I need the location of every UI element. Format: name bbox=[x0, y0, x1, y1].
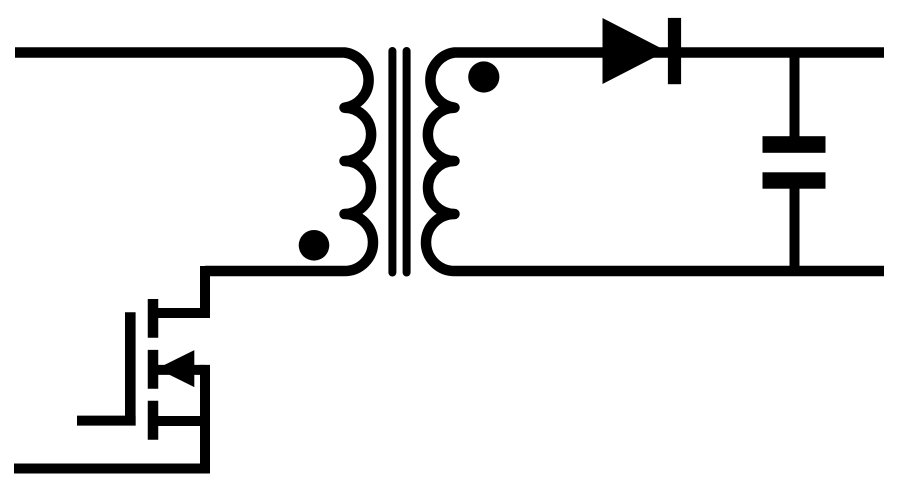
wire: capacitor branch from output node bbox=[790, 53, 800, 141]
MOSFET Q1 gate bar bbox=[125, 312, 136, 425]
transformer core (two parallel lines) bbox=[392, 51, 406, 273]
diode D1 cathode bar bbox=[668, 18, 681, 84]
polarity dot, secondary (top) bbox=[468, 61, 499, 92]
wire: source connection bbox=[153, 416, 205, 426]
polarity dot, primary (bottom) bbox=[299, 230, 330, 261]
diode D1 triangle (anode) bbox=[603, 18, 667, 84]
wire: primary bottom corner down to MOSFET drain bbox=[152, 266, 205, 313]
wire: gate lead bbox=[77, 416, 136, 426]
MOSFET Q1 body arrow bbox=[157, 350, 194, 387]
MOSFET Q1 channel segment (source) bbox=[148, 401, 159, 440]
transformer secondary winding L2 + top wire to diode + bottom rail bbox=[426, 53, 884, 272]
capacitor C1 bottom plate bbox=[763, 172, 826, 188]
wire: body connection bbox=[153, 365, 205, 375]
wire: capacitor to bottom rail bbox=[790, 185, 800, 271]
MOSFET Q1 channel segment (body) bbox=[148, 350, 159, 389]
wire: source down to ground rail, rail to left edge bbox=[14, 365, 205, 469]
wire: input line + transformer primary winding L1 + wire to drain node bbox=[15, 53, 373, 272]
MOSFET Q1 channel segment (drain) bbox=[148, 299, 159, 338]
capacitor C1 top plate bbox=[763, 136, 826, 153]
